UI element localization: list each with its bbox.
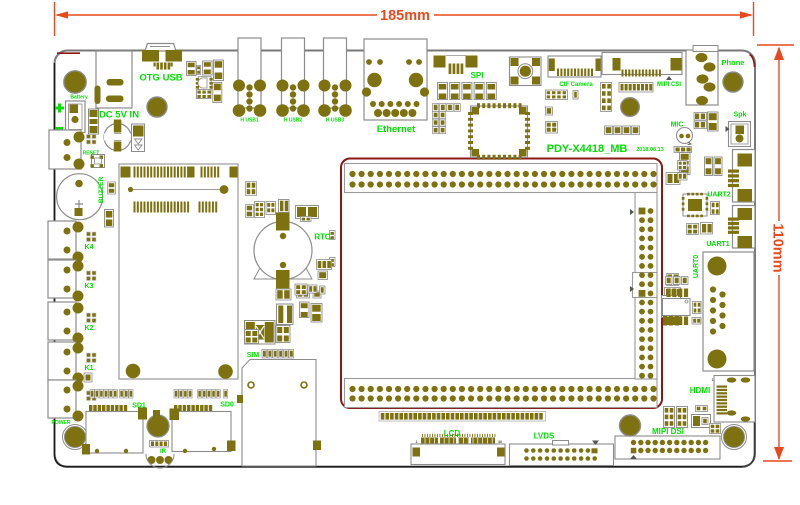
svg-text:UART0: UART0 <box>693 255 700 278</box>
svg-text:2018.08.13: 2018.08.13 <box>636 147 664 153</box>
svg-text:Spk: Spk <box>734 112 747 119</box>
svg-text:HDMI: HDMI <box>690 386 710 395</box>
svg-text:UART1: UART1 <box>706 241 729 248</box>
svg-text:SIM: SIM <box>247 352 260 359</box>
svg-text:MIPI DSI: MIPI DSI <box>652 427 684 436</box>
svg-text:K2: K2 <box>85 325 94 332</box>
svg-text:H USB3: H USB3 <box>326 118 345 124</box>
svg-text:UART2: UART2 <box>707 192 730 199</box>
svg-text:Ethernet: Ethernet <box>377 124 416 135</box>
svg-text:K3: K3 <box>85 283 94 290</box>
svg-text:H USB2: H USB2 <box>284 118 303 124</box>
svg-text:IR: IR <box>160 449 167 455</box>
svg-text:K1: K1 <box>85 365 94 372</box>
svg-text:PDY-X4418_MB: PDY-X4418_MB <box>547 143 628 155</box>
svg-text:SD0: SD0 <box>220 402 234 409</box>
svg-text:MIPI CSI: MIPI CSI <box>657 82 681 88</box>
svg-text:185mm: 185mm <box>380 8 430 24</box>
svg-text:Battery: Battery <box>70 95 87 101</box>
svg-text:1: 1 <box>415 440 417 444</box>
svg-text:RTC: RTC <box>314 233 331 242</box>
svg-text:H USB1: H USB1 <box>240 118 259 124</box>
svg-text:POWER: POWER <box>52 420 71 426</box>
svg-text:SPI: SPI <box>471 71 484 80</box>
svg-text:BUZZER: BUZZER <box>98 177 105 204</box>
svg-text:MIC: MIC <box>671 122 684 129</box>
svg-text:CIF Camera: CIF Camera <box>559 82 593 88</box>
svg-text:K4: K4 <box>85 244 94 251</box>
svg-text:Phone: Phone <box>722 58 745 67</box>
svg-text:LVDS: LVDS <box>534 432 555 441</box>
svg-text:DC 5V IN: DC 5V IN <box>99 110 139 121</box>
svg-text:OTG USB: OTG USB <box>139 73 182 84</box>
svg-text:1: 1 <box>711 378 713 382</box>
svg-text:110mm: 110mm <box>770 223 786 272</box>
svg-text:40: 40 <box>498 440 502 444</box>
